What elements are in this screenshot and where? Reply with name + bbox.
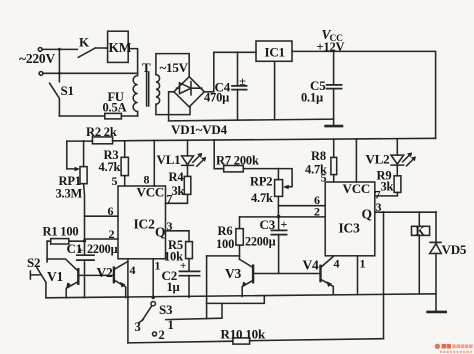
wire secondary top to bridge: [156, 54, 189, 77]
potentiometer RP1 3.3M: [80, 167, 87, 184]
svg-text:V4: V4: [303, 258, 320, 273]
wire IC3 pin3 output: [375, 211, 436, 213]
wire fuse line: [59, 115, 137, 117]
wire ground rail: [169, 119, 334, 121]
RP2 wiper arrowhead: [283, 185, 289, 190]
junction line2/S1: [58, 72, 61, 75]
label ~15V: [160, 60, 189, 75]
wire collector link: [207, 255, 240, 257]
resistor R9 3k: [394, 176, 401, 193]
potentiometer RP2 4.7k: [275, 180, 283, 197]
wire IC2 pin2: [85, 238, 119, 240]
bridge inner diode: [177, 82, 202, 95]
relay coil K: [418, 212, 420, 226]
LED VL2: [396, 139, 398, 155]
svg-text:IC2: IC2: [134, 217, 156, 232]
svg-text:3: 3: [376, 200, 382, 214]
pin 4 label IC3: [334, 256, 340, 270]
resistor R3 4.7k: [124, 141, 126, 186]
S3 contact 1 label: [168, 318, 174, 332]
bridge rectifier VD1~VD4 diamond: [174, 77, 204, 107]
svg-text:V1: V1: [47, 269, 64, 284]
svg-text:VCC: VCC: [343, 181, 371, 196]
svg-text:VL2: VL2: [366, 151, 390, 166]
wire V3-V4 base link: [254, 273, 320, 275]
wire K to KM: [106, 47, 108, 49]
svg-text:1µ: 1µ: [167, 280, 180, 294]
label Vcc +12V: [317, 27, 345, 54]
svg-text:2: 2: [314, 205, 320, 219]
label FU: [108, 90, 124, 104]
svg-text:VCC: VCC: [137, 185, 165, 200]
wire IC3 pin8: [355, 139, 357, 182]
junction ground rail / S3: [151, 296, 155, 300]
wire IC3 pin2: [240, 216, 326, 218]
pin 6 label IC2: [108, 204, 114, 218]
svg-text:T: T: [142, 60, 151, 75]
wire IC2 pin4 / V2 collector / R10 branch: [127, 259, 129, 343]
pin 2 label IC3: [314, 205, 320, 219]
svg-text:R2 2k: R2 2k: [86, 125, 117, 139]
wire S1 branch: [58, 49, 60, 81]
switch S1: [50, 83, 60, 116]
wire S3 contact1: [166, 304, 222, 320]
svg-text:1: 1: [360, 256, 366, 270]
pin 1 label IC3: [360, 256, 366, 270]
pin 3 label IC2: [167, 219, 173, 233]
svg-text:VD5: VD5: [442, 242, 467, 257]
svg-text:+: +: [281, 217, 288, 231]
svg-text:4.7k: 4.7k: [99, 160, 121, 174]
transistor V2: [113, 268, 115, 283]
wire IC2 pin3 to R5: [166, 231, 190, 242]
ground symbol bottom right: [428, 311, 446, 314]
svg-text:2200µ: 2200µ: [87, 242, 118, 256]
wire +12V bus: [292, 51, 436, 138]
transistor V4: [319, 266, 321, 281]
pin 4 label IC2: [130, 263, 136, 277]
resistor R5 10k: [186, 242, 193, 259]
svg-text:0.5A: 0.5A: [103, 101, 127, 115]
label 0.5A: [103, 101, 127, 115]
svg-text:S2: S2: [27, 255, 40, 270]
svg-text:RP2: RP2: [250, 175, 272, 189]
capacitor C2 1µ: [188, 259, 190, 298]
svg-text:4: 4: [334, 256, 340, 270]
timer IC3: [325, 182, 375, 256]
wire R10 right to IC3 pin3 node: [383, 212, 385, 339]
svg-text:R10 10k: R10 10k: [221, 327, 266, 342]
label S3: [159, 302, 173, 317]
capacitor C3 2200µ: [278, 217, 280, 274]
resistor R1 100: [51, 239, 69, 244]
capacitor C4 470µ: [237, 52, 239, 119]
svg-text:3k: 3k: [381, 180, 394, 194]
terminal top (~220V line 1): [38, 48, 42, 52]
wire rail end to RP1 wiper: [67, 141, 77, 169]
diode VD5: [435, 212, 437, 243]
svg-text:±: ±: [239, 74, 246, 88]
label S1: [61, 83, 74, 98]
svg-text:100: 100: [216, 237, 234, 251]
wire RP1 bottom to timing node: [83, 184, 86, 255]
switch S3 blade: [139, 306, 152, 323]
S3 contact 2: [153, 332, 157, 336]
junction line1/S1: [58, 48, 61, 51]
svg-text:Q: Q: [362, 207, 372, 222]
regulator IC1: [256, 41, 292, 61]
svg-text:3: 3: [167, 219, 173, 233]
transformer T primary winding: [133, 73, 137, 116]
terminal bottom (~220V line 2): [39, 72, 43, 76]
pin 3 label IC3: [376, 200, 382, 214]
svg-text:2: 2: [159, 328, 165, 342]
svg-text:S1: S1: [61, 83, 74, 98]
svg-text:Q: Q: [155, 225, 165, 240]
wire line 1: [42, 48, 77, 50]
wire line 2: [43, 72, 138, 74]
svg-text:3: 3: [135, 320, 141, 334]
LED VL1: [187, 141, 189, 156]
ground symbol under C5: [326, 125, 342, 128]
svg-text:IC1: IC1: [265, 45, 285, 60]
wire rectifier output to IC1: [214, 51, 256, 53]
transistor V1: [47, 259, 78, 271]
svg-text:5: 5: [321, 171, 327, 185]
wire IC3 pin1: [357, 256, 359, 295]
watermark logo: [435, 344, 473, 353]
svg-text:IC3: IC3: [339, 221, 361, 236]
svg-text:K: K: [79, 35, 90, 50]
svg-text:1: 1: [155, 259, 161, 273]
RP1 wiper arrowhead: [75, 167, 81, 171]
svg-text:V3: V3: [225, 266, 242, 281]
svg-text:R1 100: R1 100: [43, 225, 79, 239]
contactor coil KM: [108, 31, 129, 62]
svg-text:8: 8: [144, 173, 150, 187]
svg-text:+: +: [78, 246, 84, 257]
svg-text:V2: V2: [97, 265, 114, 280]
svg-text:7: 7: [167, 192, 173, 206]
timer IC2: [118, 186, 166, 259]
resistor R7 200k: [214, 140, 224, 169]
switch S3 common contact: [151, 302, 155, 306]
wire IC3 pin6: [278, 205, 325, 207]
wire rail notch: [207, 296, 265, 303]
S3 contact 3 label: [135, 320, 141, 334]
pushbutton S2: [37, 241, 47, 298]
wire V1-V2 base link: [79, 274, 113, 276]
svg-text:+: +: [180, 260, 186, 272]
switch K: [78, 48, 106, 57]
svg-text:C3: C3: [260, 217, 276, 232]
wire KM to line2 junction: [128, 49, 137, 74]
resistor R6 100: [239, 217, 241, 259]
label ~220V: [19, 51, 55, 66]
junction C3 node: [277, 215, 281, 219]
wire +12V rail left part: [67, 140, 93, 142]
pin 5 label IC3: [321, 171, 327, 185]
capacitor C1 2200µ: [77, 255, 94, 260]
pin 5 label IC2: [112, 174, 118, 188]
svg-text:3k: 3k: [172, 184, 185, 198]
svg-text:3.3M: 3.3M: [56, 187, 83, 201]
wire bottom common rail: [46, 294, 436, 298]
wire V3 collector branch vertical: [206, 256, 208, 319]
resistor R4 3k: [184, 176, 191, 194]
pin 2 label IC2: [109, 227, 115, 241]
pin 6 label IC3: [314, 193, 320, 207]
svg-text:4.7k: 4.7k: [251, 191, 273, 205]
svg-text:2: 2: [109, 227, 115, 241]
svg-text:R4: R4: [169, 170, 185, 184]
svg-text:S3: S3: [159, 302, 173, 317]
label VD1~VD4: [171, 122, 228, 137]
capacitor C5 0.1µ: [333, 51, 335, 125]
svg-text:5: 5: [112, 174, 118, 188]
wire bridge left corner to ground rail: [169, 92, 174, 121]
transformer T secondary winding: [156, 75, 190, 115]
resistor R8 4.7k: [333, 139, 335, 182]
junction timing node: [83, 239, 86, 242]
svg-text:~15V: ~15V: [160, 60, 189, 75]
svg-text:VD1~VD4: VD1~VD4: [171, 122, 228, 137]
pin 1 label IC2: [155, 259, 161, 273]
svg-text:470µ: 470µ: [204, 91, 229, 105]
svg-text:~220V: ~220V: [19, 51, 55, 66]
svg-text:6: 6: [108, 204, 114, 218]
resistor R10 10k: [128, 339, 384, 343]
svg-text:+12V: +12V: [317, 40, 345, 54]
transformer T core: [147, 72, 149, 106]
fuse FU 0.5A: [105, 113, 122, 119]
wire bridge right corner to +12V line: [204, 52, 214, 92]
wire IC2 pin6: [85, 215, 119, 217]
wire RP2 bottom: [277, 196, 279, 216]
wire IC1 ground pin: [274, 61, 276, 118]
svg-text:VL1: VL1: [157, 152, 181, 167]
wire +12V rail: [113, 138, 436, 141]
svg-text:R7 200k: R7 200k: [216, 153, 259, 167]
label T: [142, 60, 151, 75]
pin 8 label IC2: [144, 173, 150, 187]
label K: [79, 35, 90, 50]
svg-text:0.1µ: 0.1µ: [301, 91, 323, 105]
pin 7 label IC2: [167, 192, 173, 206]
svg-text:R8: R8: [311, 149, 326, 163]
svg-text:4: 4: [130, 263, 136, 277]
svg-text:KM: KM: [109, 40, 132, 55]
pin 7 label IC3: [375, 187, 381, 201]
wire IC2 pin1 to rail: [152, 259, 154, 298]
wire IC2 pin8: [153, 141, 155, 186]
transistor V3: [252, 266, 254, 283]
resistor R2 2k: [92, 137, 112, 144]
svg-text:2200µ: 2200µ: [245, 235, 276, 249]
